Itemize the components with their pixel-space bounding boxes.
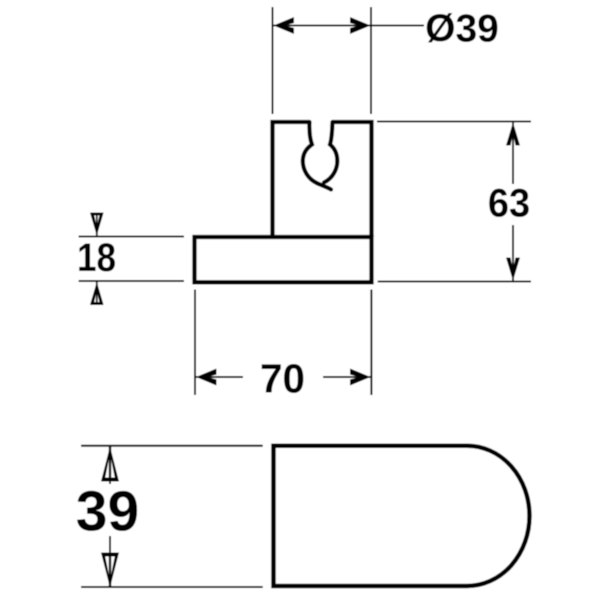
- dimension 63: up arrow: [506, 123, 520, 146]
- dimension 63: extension lines: [377, 122, 531, 282]
- dimension Ø39: right arrow: [350, 17, 371, 34]
- dimension Ø39: extension lines: [273, 7, 372, 114]
- dimension 70: extension lines: [195, 290, 371, 396]
- dimension 39: extension lines: [81, 446, 263, 587]
- dimension Ø39: dimension line with leader to text: [273, 25, 424, 27]
- bottom view D-shape outline: [274, 446, 530, 586]
- dimension 18: bottom arrow (outside, pointing up): [90, 282, 104, 305]
- svg-text:Ø39: Ø39: [425, 8, 499, 51]
- dimension 18: top arrow (outside, pointing down): [90, 213, 104, 236]
- dimension 18: extension lines: [79, 237, 184, 282]
- dimension 63: dimension line: [512, 123, 514, 280]
- dimension 63: down arrow: [506, 258, 520, 281]
- dimension 39: down arrow: [101, 553, 119, 588]
- dimension 39: up arrow: [101, 447, 119, 482]
- dimension 39: dimension line stubs: [109, 446, 111, 587]
- keyhole slot: [303, 122, 338, 190]
- dimension 70: dimension line: [196, 376, 371, 378]
- dimension 70: right arrow: [350, 369, 371, 386]
- dimension 70: left arrow: [196, 369, 217, 386]
- svg-text:18: 18: [77, 235, 116, 280]
- svg-text:39: 39: [76, 480, 139, 544]
- dimension Ø39: left arrow: [274, 17, 295, 34]
- base plate outline (top view): [195, 237, 372, 282]
- svg-text:63: 63: [488, 182, 530, 226]
- column outline (top view): [273, 122, 372, 237]
- svg-text:70: 70: [260, 356, 305, 402]
